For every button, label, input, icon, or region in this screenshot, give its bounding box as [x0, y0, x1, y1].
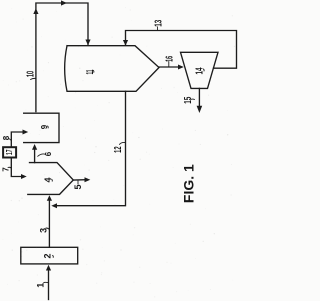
arrow right wire 7 into separator 4 — [21, 174, 27, 179]
leader comma label 2 — [52, 255, 55, 257]
arrow down wire 15 — [197, 106, 203, 113]
svg-text:2: 2 — [43, 253, 53, 258]
leader comma label 14 — [202, 69, 205, 71]
svg-text:1: 1 — [35, 283, 45, 288]
arrow down wire 13 into vessel 11 — [123, 40, 128, 46]
box 9 (open left) — [24, 113, 59, 142]
leader comma label 9 — [47, 126, 50, 128]
svg-text:16: 16 — [164, 56, 175, 62]
separator 4 (open left) — [28, 163, 74, 195]
svg-text:FIG. 1: FIG. 1 — [181, 164, 197, 203]
wire 3: box 2 top up into separator 4 bottom — [48, 199, 50, 247]
leader for label 16 — [168, 62, 170, 67]
arrow right wire 8 into box 9 — [23, 130, 29, 135]
leader for label 7 — [8, 167, 11, 168]
arrow up wire 1 into box 2 — [46, 265, 51, 271]
svg-text:4: 4 — [43, 177, 53, 182]
box 2 — [21, 247, 78, 264]
arrow right wire 16 into compressor 14 — [178, 65, 184, 70]
leader comma label 11 — [92, 70, 95, 72]
leader for label 10 — [31, 78, 36, 79]
svg-text:5: 5 — [73, 184, 83, 189]
arrow left wire 12 into junction — [51, 203, 57, 208]
vessel 11 — [65, 46, 159, 92]
arrow up wire 6 into box 9 — [32, 144, 37, 150]
arrow up on wire 10 near top corner — [33, 8, 38, 14]
arrow right wire 5 — [85, 177, 91, 182]
wire 7: box 17 bottom, down and right into separator 4 — [11, 158, 22, 177]
svg-text:12: 12 — [113, 146, 124, 153]
leader for label 3 — [46, 228, 49, 230]
wire 5: separator apex out right — [73, 179, 86, 181]
leader for label 12 — [120, 142, 126, 144]
leader comma label 4 — [51, 179, 54, 181]
wire 13: from compressor 14 right side, up and left into vessel 11 — [126, 31, 237, 69]
compressor 14 — [181, 52, 219, 88]
svg-text:17: 17 — [5, 149, 14, 155]
leader for label 5 — [77, 181, 79, 184]
arrow up wire 3 into separator 4 — [47, 195, 52, 201]
leader for label 13 — [157, 27, 159, 30]
svg-text:10: 10 — [26, 71, 37, 78]
wire 8: box 17 top, up and right into box 9 — [11, 132, 23, 147]
arrow down wire 10 into vessel 11 — [85, 40, 90, 46]
wire 16: vessel apex to compressor — [159, 66, 182, 68]
arrow right on wire 10 top segment — [61, 0, 67, 5]
leader for label 8 — [9, 139, 12, 141]
wire 10: from box 9 top, up, right, down into vessel 11 — [36, 3, 88, 112]
wire 12: vessel bottom down, left to junction with wire 3 — [54, 91, 126, 205]
box 17 — [3, 147, 16, 157]
svg-text:6: 6 — [44, 151, 53, 156]
svg-text:11: 11 — [85, 69, 96, 74]
leader for label 1 — [44, 281, 49, 283]
leader for label 6 — [38, 154, 46, 156]
wire 1: bottom edge up into box 2 — [48, 269, 50, 300]
svg-text:13: 13 — [154, 20, 165, 27]
wire 6: separator 4 top to box 9 bottom — [34, 148, 36, 163]
svg-text:15: 15 — [183, 96, 194, 103]
wire 15: compressor outlet down — [198, 88, 200, 107]
leader for label 15 — [191, 98, 195, 100]
